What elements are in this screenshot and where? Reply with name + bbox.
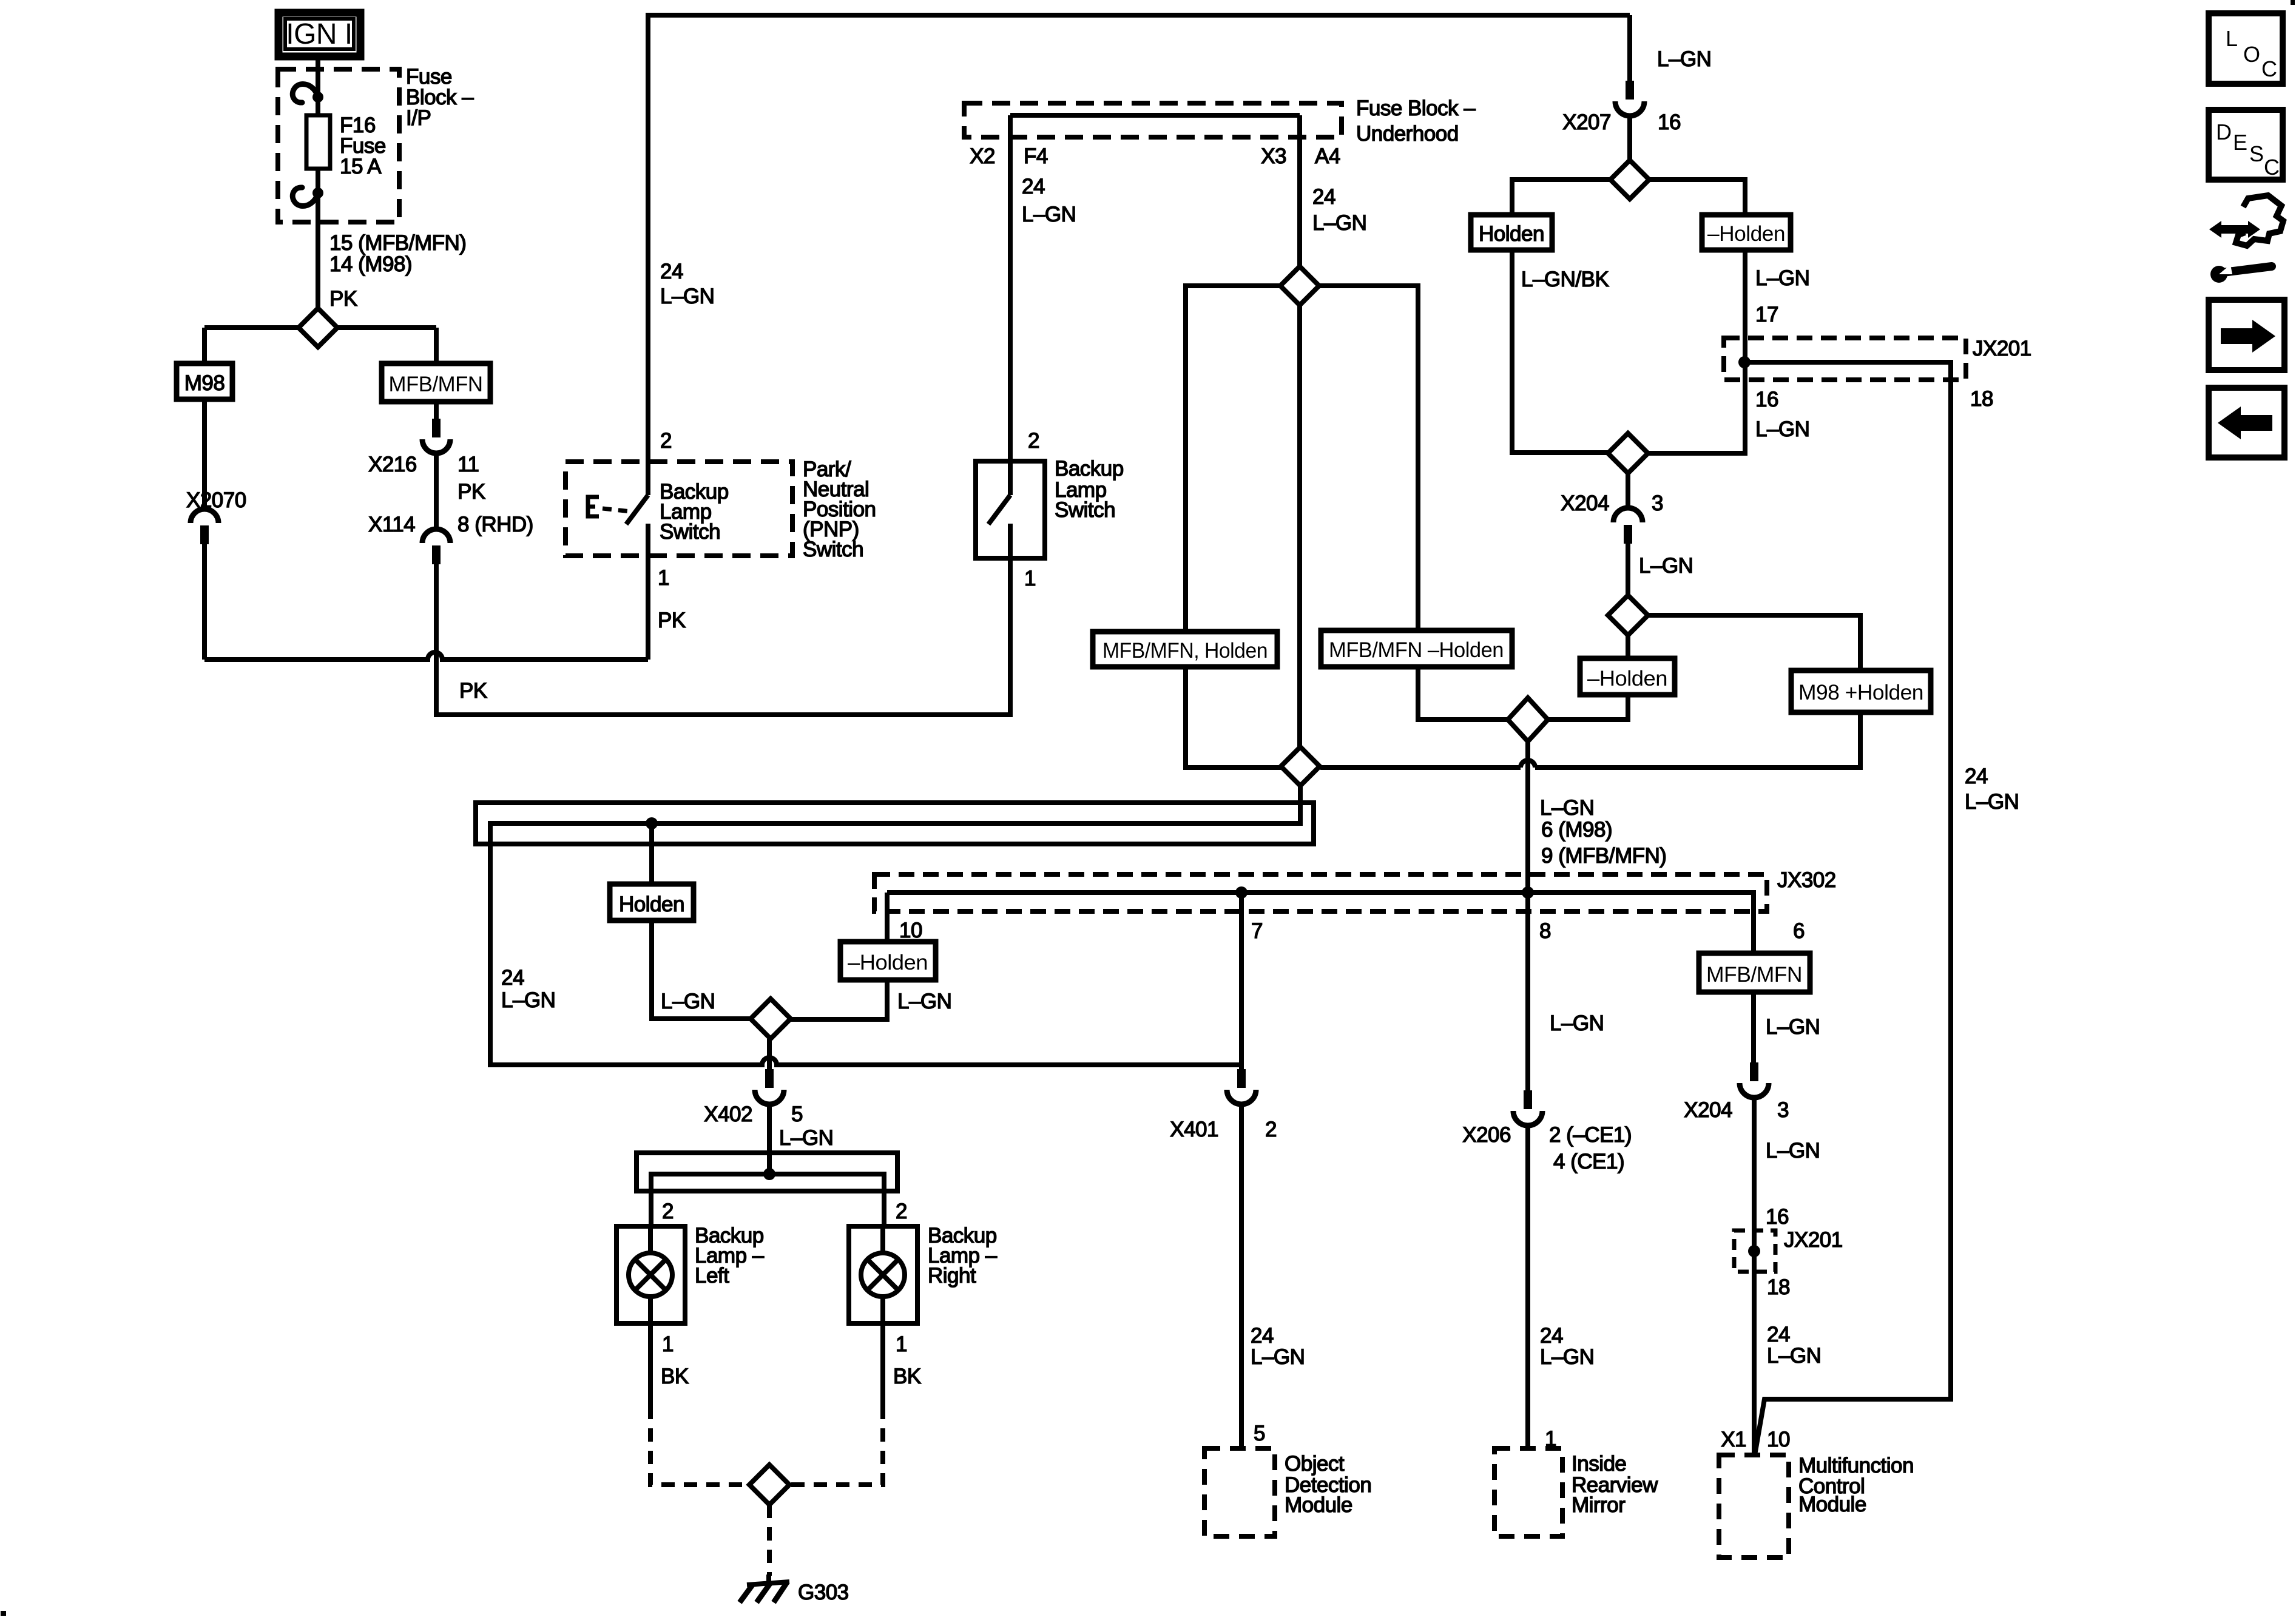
svg-text:Module: Module	[1798, 1493, 1866, 1516]
svg-text:Holden: Holden	[619, 893, 684, 916]
power feed symbol IGN I	[279, 13, 360, 56]
svg-text:L–GN: L–GN	[1251, 1345, 1305, 1369]
wire splice horizontal to M98 and MFB/MFN	[204, 328, 436, 363]
wire MFB/MFN,Holden to lower splice	[1186, 667, 1281, 768]
labels 18 24 L-GN	[1721, 1275, 1821, 1451]
svg-text:24: 24	[1540, 1324, 1563, 1348]
wire X206 to mirror	[1525, 1126, 1530, 1448]
svg-text:16: 16	[1658, 110, 1681, 134]
svg-text:X204: X204	[1684, 1098, 1732, 1122]
svg-text:Left: Left	[695, 1264, 729, 1288]
wire X402 to lamp bus	[767, 1104, 772, 1174]
svg-text:6: 6	[1793, 919, 1805, 943]
labels L-GN 17	[1755, 266, 1809, 326]
svg-text:X114: X114	[368, 513, 415, 536]
svg-text:8 (RHD): 8 (RHD)	[458, 513, 533, 536]
svg-text:10: 10	[1767, 1428, 1790, 1451]
svg-text:X207: X207	[1562, 110, 1611, 134]
splice diamond X204 top	[1608, 433, 1648, 473]
labels 24 L-GN on lamps feed	[501, 966, 555, 1012]
labels 24 L-GN 5	[1251, 1324, 1305, 1445]
svg-text:X401: X401	[1170, 1118, 1218, 1141]
wire splice horizontal to Holden and -Holden	[1512, 180, 1745, 215]
wire up to PNP switch pin 1	[646, 524, 650, 660]
icon box arrow right	[2209, 300, 2284, 370]
svg-text:L–GN: L–GN	[501, 988, 555, 1012]
lamp bus ring	[636, 1153, 897, 1191]
svg-text:X1: X1	[1721, 1428, 1746, 1451]
connector X114	[422, 529, 450, 564]
dashed ground run right	[789, 1406, 883, 1485]
component box Object Detection Module	[1204, 1448, 1275, 1536]
wire IGN I to fuse F16	[316, 56, 320, 115]
label Backup Lamp - Left	[661, 1224, 765, 1388]
svg-text:24: 24	[1767, 1323, 1790, 1346]
junction dot pin 8	[1522, 886, 1534, 899]
labels X207 16	[1562, 110, 1681, 134]
backup lamp switch blade (manual)	[626, 495, 648, 524]
label Object Detection Module	[1285, 1452, 1371, 1517]
svg-text:–Holden: –Holden	[848, 951, 928, 974]
labels X204 3	[1561, 491, 1693, 578]
wire pin 1 down	[1008, 524, 1013, 558]
label Fuse Block - I/P	[406, 65, 474, 130]
svg-text:X3: X3	[1261, 144, 1286, 168]
svg-text:2 (–CE1): 2 (–CE1)	[1549, 1123, 1632, 1147]
junction block JX201 dashed box	[1724, 338, 1966, 380]
wire Holden box to lamp splice	[652, 920, 751, 1019]
svg-text:2: 2	[660, 429, 672, 453]
svg-text:MFB/MFN, Holden: MFB/MFN, Holden	[1102, 639, 1268, 663]
junction dot pin 7	[1235, 886, 1248, 899]
wire splice to X204	[1626, 473, 1630, 509]
wire pin 7 down to X401	[1239, 893, 1244, 1069]
svg-text:3: 3	[1652, 491, 1663, 515]
svg-text:5: 5	[791, 1102, 803, 1126]
wire splice down to JX302	[1525, 741, 1530, 893]
svg-text:Module: Module	[1285, 1493, 1352, 1517]
svg-text:MFB/MFN: MFB/MFN	[1706, 963, 1802, 987]
wire MFB/MFN to X216	[434, 402, 439, 420]
svg-text:L–GN: L–GN	[1312, 211, 1366, 235]
svg-text:BK: BK	[893, 1365, 921, 1388]
svg-text:–Holden: –Holden	[1707, 222, 1785, 246]
bulb symbol right	[861, 1226, 905, 1323]
wire JX201 internal branch to pin 18	[1744, 362, 1951, 1455]
dashed wire to ground	[767, 1505, 772, 1576]
label Backup Lamp Switch (PNP)	[660, 480, 729, 544]
svg-text:E: E	[2233, 130, 2247, 155]
actuator bracket and dashes	[588, 497, 631, 516]
svg-text:24: 24	[501, 966, 524, 990]
svg-text:10: 10	[899, 919, 922, 942]
junction dot on rail	[646, 817, 658, 829]
label pin 1 and PK at PNP switch	[658, 566, 686, 632]
svg-text:Inside: Inside	[1572, 1452, 1626, 1476]
svg-text:24: 24	[1251, 1324, 1274, 1348]
svg-text:Right: Right	[928, 1264, 976, 1288]
svg-text:18: 18	[1970, 387, 1993, 411]
svg-text:16: 16	[1766, 1205, 1789, 1229]
splice diamond X207	[1610, 160, 1649, 199]
svg-text:Mirror: Mirror	[1572, 1493, 1626, 1517]
wire F4 drop to backup lamp switch	[1008, 115, 1013, 495]
labels 24 L-GN and pin 2 on PNP drop	[660, 260, 714, 453]
svg-text:IGN I: IGN I	[286, 18, 353, 50]
ground splice diamond	[749, 1465, 789, 1505]
harness box Holden	[610, 884, 694, 920]
svg-text:24: 24	[1312, 185, 1335, 209]
wire fuse to diamond	[316, 169, 320, 311]
svg-text:15 A: 15 A	[340, 155, 382, 178]
svg-text:X402: X402	[704, 1102, 752, 1126]
wire lower splice right branch to M98 +Holden	[1648, 615, 1860, 670]
wire MFB/MFN -Holden to -Holden splice	[1418, 667, 1509, 720]
wire X114 down through hop to bottom PK run	[436, 558, 1010, 715]
page mark bottom left	[1, 1611, 6, 1616]
junction dot lamp bus	[763, 1168, 775, 1180]
labels X401 2	[1170, 1118, 1277, 1141]
connector X402	[755, 1069, 784, 1104]
wire M98 to X2070	[202, 399, 207, 509]
svg-text:PK: PK	[329, 287, 357, 311]
svg-text:L–GN: L–GN	[1550, 1011, 1604, 1035]
fuse block underhood dashed box	[964, 103, 1342, 137]
splice diamond	[299, 308, 337, 347]
svg-text:Backup: Backup	[1055, 457, 1124, 481]
svg-text:15 (MFB/MFN): 15 (MFB/MFN)	[329, 231, 466, 255]
svg-text:14 (M98): 14 (M98)	[329, 252, 412, 276]
wire left lamp pin 1	[648, 1323, 653, 1406]
dashed ground run left	[650, 1406, 750, 1485]
svg-text:Switch: Switch	[660, 520, 720, 544]
labels X206 2 (-CE1) 4 (CE1)	[1462, 1123, 1632, 1173]
svg-text:17: 17	[1755, 303, 1778, 326]
svg-text:PK: PK	[458, 480, 485, 504]
harness box MFB/MFN	[382, 363, 490, 402]
splice diamond lower	[1608, 595, 1648, 635]
label Multifunction Control Module	[1798, 1454, 1914, 1516]
wire top bus down to X207	[1627, 15, 1632, 82]
svg-text:L–GN: L–GN	[1657, 47, 1711, 71]
fuse clip upper	[292, 84, 323, 103]
connector X401	[1227, 1069, 1256, 1104]
svg-text:L–GN: L–GN	[1766, 1139, 1820, 1163]
svg-text:X2070: X2070	[186, 488, 246, 512]
svg-text:C: C	[2264, 155, 2280, 180]
wire right lamp pin 1	[880, 1323, 885, 1406]
svg-text:3: 3	[1777, 1098, 1789, 1122]
svg-text:X216: X216	[368, 453, 417, 476]
labels X204 3	[1684, 1098, 1820, 1229]
splice diamond rejoin	[1281, 747, 1320, 786]
wire M98+Holden down and across with hop	[1320, 712, 1860, 768]
labels L-GN 6 (M98) 9 (MFB/MFN)	[1540, 796, 1666, 868]
component box Inside Rearview Mirror	[1494, 1448, 1562, 1536]
svg-text:5: 5	[1254, 1422, 1265, 1445]
svg-text:L–GN: L–GN	[1639, 554, 1693, 578]
svg-text:Holden: Holden	[1479, 222, 1544, 246]
lamp feed bus	[651, 1174, 884, 1226]
svg-text:L: L	[2226, 26, 2238, 51]
svg-text:Switch: Switch	[1055, 498, 1115, 522]
labels X402 5 L-GN	[704, 1102, 833, 1150]
svg-text:24: 24	[660, 260, 683, 283]
junction dot JX201 lower	[1748, 1245, 1760, 1257]
wire internal bus F4 to A4	[1010, 113, 1300, 118]
harness box -Holden	[840, 942, 936, 980]
svg-text:L–GN: L–GN	[1540, 1345, 1594, 1369]
wire splice down to X402	[767, 1039, 772, 1069]
svg-text:6 (M98): 6 (M98)	[1541, 818, 1612, 842]
svg-text:9 (MFB/MFN): 9 (MFB/MFN)	[1541, 844, 1666, 868]
harness box -Holden right	[1702, 215, 1791, 250]
svg-text:8: 8	[1539, 919, 1551, 943]
fuse clip lower	[292, 187, 323, 206]
svg-text:18: 18	[1767, 1275, 1790, 1299]
svg-text:MFB/MFN: MFB/MFN	[389, 373, 483, 396]
wire X401 to module	[1239, 1104, 1244, 1448]
svg-text:1: 1	[896, 1332, 907, 1356]
svg-text:X2: X2	[970, 144, 995, 168]
svg-text:L–GN: L–GN	[1755, 266, 1809, 290]
lamp splice diamond	[751, 999, 791, 1039]
label Backup Lamp - Right	[893, 1224, 998, 1388]
svg-text:24: 24	[1965, 765, 1988, 788]
svg-text:M98: M98	[184, 371, 225, 395]
svg-text:M98 +Holden: M98 +Holden	[1798, 681, 1923, 704]
svg-text:Switch: Switch	[803, 538, 863, 561]
svg-text:2: 2	[662, 1200, 674, 1223]
splice diamond -Holden rejoin	[1508, 698, 1548, 741]
svg-text:BK: BK	[661, 1365, 689, 1388]
svg-text:L–GN: L–GN	[1755, 417, 1809, 441]
svg-text:L–GN: L–GN	[1540, 796, 1594, 820]
connector X216	[422, 419, 450, 453]
ground G303	[740, 1575, 789, 1602]
label 15 (MFB/MFN) 14 (M98)	[329, 231, 466, 311]
svg-text:4 (CE1): 4 (CE1)	[1553, 1150, 1624, 1173]
svg-text:1: 1	[662, 1332, 674, 1356]
fuse block I/P dashed box	[278, 69, 399, 222]
svg-text:O: O	[2243, 42, 2260, 67]
dashed box Park/Neutral Position switch	[566, 462, 792, 556]
svg-text:A4: A4	[1315, 144, 1340, 168]
splice diamond A4	[1280, 266, 1319, 305]
labels pins 7 8 6	[1251, 919, 1805, 943]
label Backup Lamp Switch	[1024, 457, 1124, 590]
harness box MFB/MFN -Holden	[1321, 630, 1512, 667]
wire -Holden L-GN down to JX201	[1743, 250, 1747, 362]
svg-text:L–GN: L–GN	[660, 285, 714, 308]
connector X204 lower	[1740, 1062, 1769, 1098]
junction block JX201 lower dashed box	[1734, 1230, 1775, 1272]
svg-text:X206: X206	[1462, 1123, 1511, 1147]
wire JX302 internal bus	[887, 893, 1754, 953]
labels X216 11 PK	[368, 453, 533, 536]
wire PNP switch pin 2 drop	[646, 15, 650, 495]
backup lamp right box	[849, 1226, 917, 1323]
hop arc over L-GN drop	[1521, 760, 1535, 768]
wire X204 to JX201 lower	[1752, 1098, 1757, 1455]
fuse F16 15A body	[306, 115, 330, 169]
wire A4 drop	[1297, 115, 1302, 266]
svg-text:1: 1	[1024, 567, 1036, 590]
svg-text:D: D	[2216, 120, 2232, 144]
wire horizontal M98 branch with hop over X114 wire	[204, 652, 648, 660]
svg-text:7: 7	[1251, 919, 1263, 943]
wire Holden L-GN/BK down and across	[1512, 250, 1608, 453]
svg-text:–Holden: –Holden	[1587, 667, 1667, 690]
harness box M98	[177, 363, 232, 399]
harness box Holden right	[1471, 215, 1552, 250]
label Park/Neutral Position (PNP) Switch	[803, 457, 876, 561]
connector X2070	[191, 509, 218, 544]
svg-text:L–GN/BK: L–GN/BK	[1521, 268, 1609, 291]
svg-text:MFB/MFN –Holden: MFB/MFN –Holden	[1329, 638, 1504, 662]
svg-text:Object: Object	[1285, 1452, 1345, 1476]
harness box MFB/MFN, Holden	[1093, 632, 1277, 667]
svg-text:F4: F4	[1024, 144, 1048, 168]
svg-text:24: 24	[1022, 175, 1045, 198]
wire X204 to lower splice	[1626, 544, 1630, 595]
svg-text:2: 2	[1028, 429, 1039, 453]
svg-text:L–GN: L–GN	[1766, 1015, 1820, 1039]
wire X207 to splice	[1627, 116, 1632, 161]
wire splice down to -Holden box2	[1626, 635, 1630, 658]
icon box DESC	[2209, 110, 2283, 180]
svg-text:L–GN: L–GN	[897, 990, 951, 1013]
wire X216 to X114	[434, 453, 439, 529]
harness box M98 +Holden	[1791, 670, 1931, 712]
svg-text:S: S	[2249, 141, 2264, 166]
icon harness repair glyph	[2209, 195, 2283, 283]
svg-text:JX302: JX302	[1777, 868, 1836, 892]
wire -Holden pin 10 from JX302	[885, 893, 890, 942]
svg-text:L–GN: L–GN	[1022, 203, 1076, 226]
icon box arrow left	[2209, 388, 2284, 457]
wire splice down to bus rail 2 and across to lamps feed	[490, 786, 1300, 1065]
harness box MFB/MFN pin 6	[1699, 953, 1810, 992]
wire JX201 pin16 down to splice	[1648, 362, 1745, 453]
labels X3 A4	[1261, 144, 1366, 235]
svg-text:11: 11	[458, 453, 479, 476]
svg-text:G303: G303	[798, 1581, 849, 1604]
svg-text:L–GN: L–GN	[661, 990, 715, 1013]
label F16 Fuse 15 A	[340, 113, 386, 178]
labels 16 18 L-GN	[1755, 387, 2019, 814]
svg-text:1: 1	[658, 566, 669, 590]
wire X2070 down to bottom horizontal	[202, 544, 207, 660]
labels X2 F4 24 L-GN 2	[970, 144, 1076, 453]
connector X206	[1513, 1090, 1542, 1126]
svg-text:C: C	[2261, 56, 2277, 81]
page mark top right	[2291, 0, 2295, 5]
bus ring rail	[476, 803, 1314, 844]
svg-text:2: 2	[896, 1200, 907, 1223]
wire MFB/MFN box to X204	[1751, 992, 1756, 1062]
bulb symbol left	[629, 1226, 672, 1323]
harness box -Holden 2	[1580, 658, 1675, 695]
wire -Holden2 to rejoin splice	[1548, 695, 1628, 720]
svg-text:JX201: JX201	[1784, 1228, 1843, 1252]
svg-text:16: 16	[1755, 388, 1778, 411]
label Inside Rearview Mirror	[1572, 1452, 1658, 1517]
backup lamp switch (auto) box	[976, 461, 1045, 558]
component box Multifunction Control Module	[1719, 1455, 1789, 1558]
svg-text:Underhood: Underhood	[1356, 122, 1459, 146]
svg-text:L–GN: L–GN	[1767, 1344, 1821, 1368]
wire -Holden box to lamp splice	[791, 980, 887, 1019]
wire pin 8 down to X206	[1525, 893, 1530, 1090]
svg-text:Fuse Block –: Fuse Block –	[1356, 96, 1476, 120]
connector X207	[1615, 81, 1644, 116]
svg-text:I/P: I/P	[406, 106, 431, 130]
junction dot JX201	[1738, 356, 1751, 368]
connector X204	[1613, 508, 1643, 544]
wire top bus from PNP switch to X207	[646, 13, 1630, 18]
label Fuse Block - Underhood	[1356, 96, 1476, 146]
wire Holden drop from rail	[649, 823, 654, 884]
svg-text:L–GN: L–GN	[1965, 790, 2019, 814]
svg-text:PK: PK	[459, 679, 487, 703]
icon box LOC	[2209, 13, 2283, 84]
wire splice branches to harness boxes	[1186, 286, 1418, 747]
switch blade	[988, 495, 1010, 524]
svg-text:PK: PK	[658, 609, 686, 632]
svg-text:X204: X204	[1561, 491, 1609, 515]
backup lamp left box	[616, 1226, 685, 1323]
junction block JX302 dashed box	[874, 874, 1767, 911]
svg-text:L–GN: L–GN	[779, 1126, 833, 1150]
svg-text:2: 2	[1265, 1118, 1277, 1141]
labels 24 L-GN 1	[1540, 1324, 1594, 1451]
svg-text:JX201: JX201	[1973, 337, 2031, 360]
